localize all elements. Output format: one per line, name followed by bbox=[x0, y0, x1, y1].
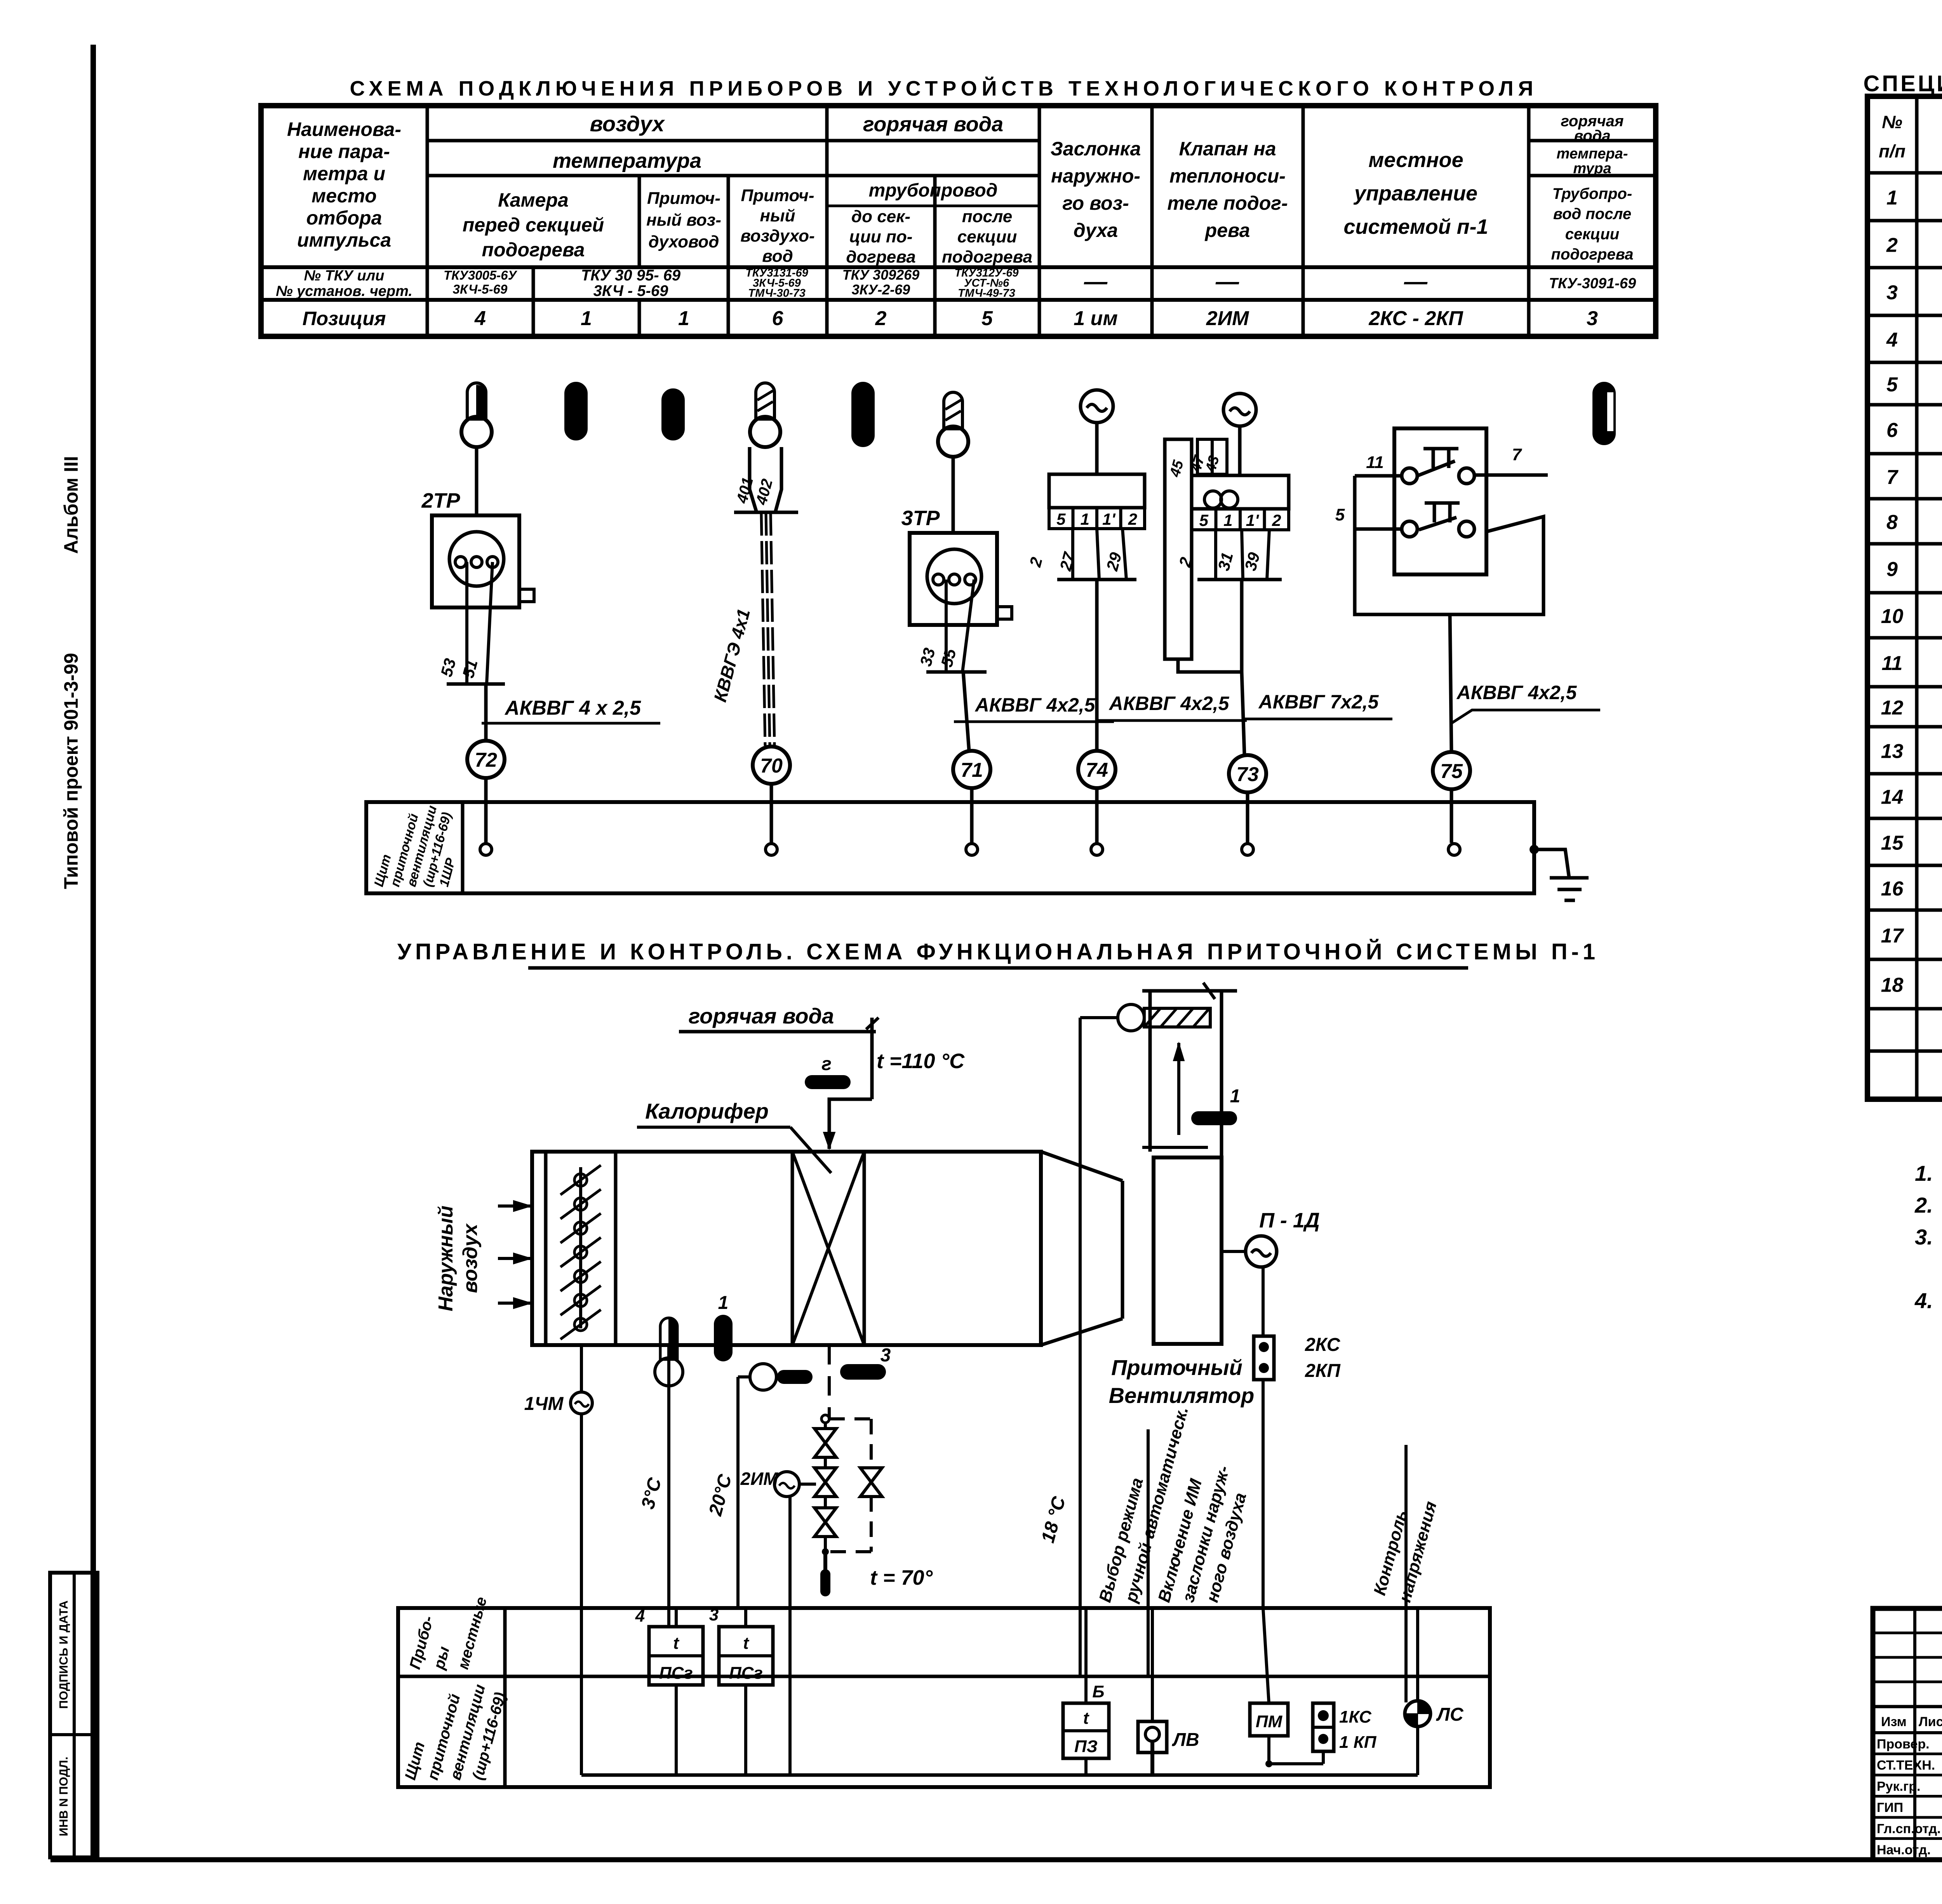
svg-text:5: 5 bbox=[981, 307, 993, 330]
svg-text:рева: рева bbox=[1204, 219, 1250, 241]
svg-text:секции: секции bbox=[1565, 226, 1619, 243]
svg-text:17: 17 bbox=[1881, 925, 1904, 947]
svg-text:t = 70°: t = 70° bbox=[870, 1566, 933, 1589]
svg-text:Провер.: Провер. bbox=[1877, 1737, 1930, 1752]
svg-text:73: 73 bbox=[1236, 763, 1259, 786]
svg-text:отбора: отбора bbox=[306, 207, 382, 229]
svg-text:7: 7 bbox=[1512, 445, 1523, 464]
svg-text:перед секцией: перед секцией bbox=[463, 214, 604, 236]
svg-text:ЛС: ЛС bbox=[1436, 1704, 1464, 1725]
svg-text:воздухо-: воздухо- bbox=[740, 226, 814, 245]
svg-text:ПСг: ПСг bbox=[729, 1664, 763, 1683]
svg-text:подогрева: подогрева bbox=[942, 247, 1032, 266]
svg-text:1': 1' bbox=[1246, 511, 1260, 529]
svg-text:ПМ: ПМ bbox=[1256, 1712, 1283, 1731]
svg-text:5: 5 bbox=[1199, 511, 1209, 529]
svg-text:ГИП: ГИП bbox=[1877, 1800, 1903, 1815]
svg-text:1ЧМ: 1ЧМ bbox=[524, 1394, 564, 1414]
svg-text:4: 4 bbox=[1886, 329, 1898, 352]
svg-text:72: 72 bbox=[475, 749, 497, 771]
svg-text:подогрева: подогрева bbox=[482, 239, 585, 261]
svg-text:3КЧ - 5-69: 3КЧ - 5-69 bbox=[593, 282, 669, 299]
svg-text:4: 4 bbox=[635, 1606, 645, 1626]
svg-text:1КС: 1КС bbox=[1339, 1707, 1372, 1726]
svg-text:импульса: импульса bbox=[297, 229, 391, 251]
svg-text:t: t bbox=[743, 1634, 750, 1653]
svg-text:№ установ. черт.: № установ. черт. bbox=[276, 283, 412, 299]
svg-text:Клапан на: Клапан на bbox=[1179, 138, 1276, 160]
svg-text:го воз-: го воз- bbox=[1062, 192, 1129, 214]
svg-text:догрева: догрева bbox=[846, 247, 915, 266]
svg-text:ТМЧ-30-73: ТМЧ-30-73 bbox=[748, 287, 806, 299]
svg-text:1: 1 bbox=[1081, 510, 1089, 528]
svg-text:1: 1 bbox=[1230, 1086, 1241, 1107]
svg-text:№: № bbox=[1882, 112, 1902, 132]
svg-text:75: 75 bbox=[1440, 760, 1463, 783]
svg-text:горячая вода: горячая вода bbox=[689, 1004, 834, 1028]
svg-text:Камера: Камера bbox=[498, 189, 569, 211]
svg-text:2ИМ: 2ИМ bbox=[740, 1469, 779, 1489]
svg-text:Приточный: Приточный bbox=[1111, 1355, 1242, 1380]
svg-text:2КП: 2КП bbox=[1305, 1361, 1341, 1381]
svg-text:ТКУ3005-6У: ТКУ3005-6У bbox=[444, 268, 518, 282]
svg-text:1 им: 1 им bbox=[1074, 307, 1118, 330]
svg-text:П - 1Д: П - 1Д bbox=[1259, 1209, 1320, 1232]
svg-text:10: 10 bbox=[1881, 605, 1904, 628]
svg-text:воздух: воздух bbox=[590, 111, 665, 136]
svg-text:16: 16 bbox=[1881, 878, 1904, 900]
svg-text:темпера-: темпера- bbox=[1557, 146, 1628, 162]
svg-text:12: 12 bbox=[1881, 697, 1904, 719]
svg-text:2ТР: 2ТР bbox=[421, 489, 460, 512]
svg-text:1: 1 bbox=[678, 307, 689, 330]
svg-text:ный воз-: ный воз- bbox=[646, 211, 721, 230]
svg-text:5: 5 bbox=[1335, 505, 1345, 524]
svg-text:3: 3 bbox=[881, 1345, 891, 1366]
svg-text:СПЕЦИФИКАЦИЯ ОСНОВНЫХ МОНТАЖ: СПЕЦИФИКАЦИЯ ОСНОВНЫХ МОНТАЖНЫХ МАТЕРИАЛ… bbox=[1864, 71, 1942, 96]
svg-text:воздух: воздух bbox=[459, 1223, 482, 1293]
svg-text:трубопровод: трубопровод bbox=[869, 180, 998, 201]
svg-text:3: 3 bbox=[1587, 307, 1598, 330]
svg-text:3КУ-2-69: 3КУ-2-69 bbox=[852, 282, 910, 298]
svg-text:Наружный: Наружный bbox=[435, 1206, 457, 1311]
svg-text:Гл.сп.отд.: Гл.сп.отд. bbox=[1877, 1822, 1941, 1836]
svg-text:ции по-: ции по- bbox=[849, 227, 913, 246]
svg-text:температура: температура bbox=[553, 149, 701, 172]
svg-text:секции: секции bbox=[957, 227, 1017, 246]
svg-text:2: 2 bbox=[875, 307, 887, 330]
svg-text:Приточ-: Приточ- bbox=[741, 186, 814, 205]
svg-text:ПЗ: ПЗ bbox=[1074, 1737, 1098, 1756]
svg-text:2.: 2. bbox=[1914, 1193, 1933, 1217]
svg-text:ПОДПИСЬ И ДАТА: ПОДПИСЬ И ДАТА bbox=[57, 1600, 70, 1709]
svg-text:70: 70 bbox=[760, 755, 783, 777]
svg-text:Наименова-: Наименова- bbox=[287, 118, 401, 140]
svg-text:Вентилятор: Вентилятор bbox=[1109, 1383, 1255, 1408]
svg-text:4.: 4. bbox=[1914, 1288, 1933, 1313]
svg-text:ТМЧ-49-73: ТМЧ-49-73 bbox=[958, 287, 1015, 299]
svg-text:74: 74 bbox=[1086, 759, 1108, 781]
svg-text:ЛВ: ЛВ bbox=[1172, 1730, 1199, 1750]
svg-text:1: 1 bbox=[1886, 187, 1898, 209]
svg-text:духа: духа bbox=[1074, 219, 1118, 241]
svg-text:Калорифер: Калорифер bbox=[645, 1099, 769, 1123]
svg-text:3.: 3. bbox=[1915, 1225, 1933, 1249]
svg-text:5: 5 bbox=[1056, 510, 1066, 528]
svg-text:1 КП: 1 КП bbox=[1339, 1733, 1377, 1752]
svg-text:АКВВГ 7х2,5: АКВВГ 7х2,5 bbox=[1258, 691, 1379, 713]
svg-text:АКВВГ 4х2,5: АКВВГ 4х2,5 bbox=[1456, 682, 1577, 703]
svg-text:метра и: метра и bbox=[303, 163, 385, 184]
svg-text:2КС: 2КС bbox=[1305, 1335, 1341, 1355]
svg-text:1: 1 bbox=[581, 307, 592, 330]
svg-text:t: t bbox=[673, 1634, 680, 1653]
svg-text:2: 2 bbox=[1886, 234, 1898, 257]
svg-text:духовод: духовод bbox=[648, 232, 719, 251]
svg-text:управление: управление bbox=[1353, 182, 1477, 205]
svg-text:ТКУ 30 95- 69: ТКУ 30 95- 69 bbox=[581, 267, 681, 284]
svg-text:Нач.отд.: Нач.отд. bbox=[1877, 1843, 1931, 1857]
svg-text:3ТР: 3ТР bbox=[901, 506, 940, 530]
svg-text:6: 6 bbox=[772, 307, 784, 330]
svg-text:Альбом III: Альбом III bbox=[60, 456, 82, 554]
svg-text:2ИМ: 2ИМ bbox=[1206, 307, 1249, 330]
svg-text:15: 15 bbox=[1881, 832, 1904, 855]
svg-text:Б: Б bbox=[1092, 1682, 1104, 1701]
svg-text:ИНВ N ПОДЛ.: ИНВ N ПОДЛ. bbox=[57, 1756, 70, 1836]
svg-text:11: 11 bbox=[1882, 652, 1903, 675]
svg-text:2: 2 bbox=[1128, 510, 1137, 528]
svg-text:СХЕМА ПОДКЛЮЧЕНИЯ ПРИБОРОВ: СХЕМА ПОДКЛЮЧЕНИЯ ПРИБОРОВ И УСТРОЙСТВ Т… bbox=[350, 77, 1538, 100]
svg-text:теле подог-: теле подог- bbox=[1167, 192, 1288, 214]
svg-text:ный: ный bbox=[760, 206, 795, 225]
svg-text:—: — bbox=[1404, 268, 1428, 294]
svg-text:14: 14 bbox=[1881, 786, 1904, 809]
svg-text:Заслонка: Заслонка bbox=[1051, 138, 1141, 160]
svg-text:№ ТКУ или: № ТКУ или bbox=[304, 268, 384, 284]
svg-text:3: 3 bbox=[709, 1605, 719, 1624]
svg-text:теплоноси-: теплоноси- bbox=[1169, 165, 1286, 187]
svg-text:вода: вода bbox=[1574, 127, 1611, 144]
svg-text:АКВВГ 4х2,5: АКВВГ 4х2,5 bbox=[974, 694, 1096, 716]
svg-text:до сек-: до сек- bbox=[851, 207, 910, 226]
svg-text:подогрева: подогрева bbox=[1551, 246, 1634, 263]
svg-text:8: 8 bbox=[1886, 511, 1898, 534]
svg-text:ПСг: ПСг bbox=[659, 1664, 693, 1683]
svg-text:г: г bbox=[821, 1054, 832, 1074]
svg-text:13: 13 bbox=[1881, 740, 1904, 763]
svg-text:Трубопро-: Трубопро- bbox=[1552, 185, 1632, 202]
svg-text:6: 6 bbox=[1886, 419, 1898, 442]
svg-text:5: 5 bbox=[1886, 374, 1898, 396]
svg-text:—: — bbox=[1084, 268, 1108, 294]
svg-text:Позиция: Позиция bbox=[303, 308, 386, 329]
svg-text:7: 7 bbox=[1886, 466, 1898, 489]
svg-text:3КЧ-5-69: 3КЧ-5-69 bbox=[453, 282, 508, 296]
svg-text:Приточ-: Приточ- bbox=[647, 189, 720, 208]
svg-text:1: 1 bbox=[718, 1293, 729, 1313]
svg-text:Рук.гр.: Рук.гр. bbox=[1877, 1779, 1920, 1794]
svg-text:Изм: Изм bbox=[1881, 1714, 1907, 1729]
svg-text:1.: 1. bbox=[1915, 1161, 1933, 1185]
svg-text:Типовой проект 901-3-99: Типовой проект 901-3-99 bbox=[60, 653, 82, 889]
svg-text:2КС - 2КП: 2КС - 2КП bbox=[1368, 307, 1463, 330]
svg-text:4: 4 bbox=[474, 307, 486, 330]
svg-text:системой п-1: системой п-1 bbox=[1343, 215, 1488, 238]
svg-text:Лист: Лист bbox=[1919, 1714, 1942, 1729]
svg-text:АКВВГ 4х2,5: АКВВГ 4х2,5 bbox=[1108, 693, 1230, 714]
svg-text:горячая вода: горячая вода bbox=[863, 113, 1003, 136]
svg-text:наружно-: наружно- bbox=[1051, 165, 1140, 187]
svg-text:71: 71 bbox=[961, 759, 983, 781]
svg-text:2: 2 bbox=[1272, 511, 1281, 529]
svg-text:1': 1' bbox=[1102, 510, 1116, 528]
svg-text:вод после: вод после bbox=[1553, 205, 1631, 223]
svg-text:СТ.ТЕХН.: СТ.ТЕХН. bbox=[1877, 1758, 1935, 1773]
svg-text:п/п: п/п bbox=[1879, 141, 1905, 161]
svg-text:вод: вод bbox=[762, 247, 793, 266]
svg-text:ние пара-: ние пара- bbox=[298, 141, 390, 162]
svg-text:18: 18 bbox=[1881, 974, 1904, 997]
svg-text:9: 9 bbox=[1886, 558, 1898, 581]
svg-text:местное: местное bbox=[1368, 148, 1463, 172]
svg-text:—: — bbox=[1215, 268, 1239, 294]
svg-text:тура: тура bbox=[1573, 160, 1611, 177]
svg-text:1: 1 bbox=[1223, 511, 1232, 529]
svg-text:3: 3 bbox=[1886, 282, 1898, 304]
svg-text:11: 11 bbox=[1366, 453, 1384, 472]
svg-text:АКВВГ 4 х 2,5: АКВВГ 4 х 2,5 bbox=[504, 697, 641, 719]
svg-text:место: место bbox=[311, 185, 377, 207]
svg-text:УПРАВЛЕНИЕ И КОНТРОЛЬ. СХЕМ: УПРАВЛЕНИЕ И КОНТРОЛЬ. СХЕМА ФУНКЦИОНАЛЬ… bbox=[397, 939, 1599, 964]
svg-text:после: после bbox=[962, 207, 1013, 226]
svg-text:ТКУ-3091-69: ТКУ-3091-69 bbox=[1549, 275, 1636, 292]
svg-text:ТКУ 309269: ТКУ 309269 bbox=[842, 267, 920, 283]
svg-text:t: t bbox=[1083, 1709, 1090, 1728]
svg-text:t =110 °С: t =110 °С bbox=[877, 1049, 965, 1073]
